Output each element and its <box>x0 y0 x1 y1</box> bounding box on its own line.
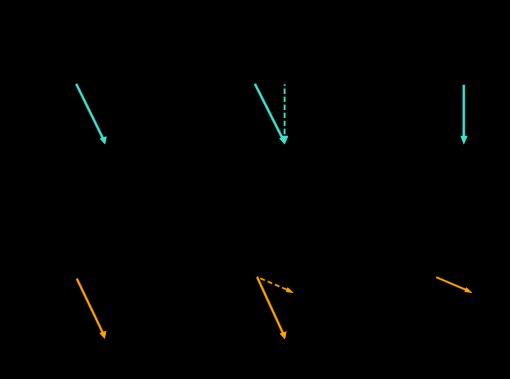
teal arrow 1: solid diagonal, top-left <box>76 84 106 144</box>
orange arrow 2: solid diagonal, bottom-middle <box>257 277 286 339</box>
teal arrow 3: dashed vertical, top-middle <box>282 84 288 144</box>
teal arrow 2: solid diagonal, top-middle <box>255 84 286 144</box>
teal arrow 4: solid vertical, top-right <box>461 85 467 144</box>
orange arrow 4: solid shallow diagonal, bottom-right <box>436 277 472 293</box>
orange arrow 1: solid diagonal, bottom-left <box>77 279 106 339</box>
orange arrow 3: dashed shallow diagonal, bottom-middle <box>257 277 293 293</box>
